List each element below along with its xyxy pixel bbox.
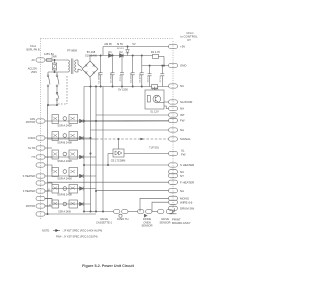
capacitor C4 bbox=[131, 56, 135, 87]
connector CN-A pin F-HEATER bbox=[36, 189, 52, 193]
svg-text:WIRE (H): WIRE (H) bbox=[180, 200, 192, 204]
wire bottom feed bbox=[47, 213, 96, 214]
svg-text:CE 17CD8M: CE 17CD8M bbox=[111, 159, 126, 163]
wire ground rail bbox=[84, 86, 169, 87]
wire switch join bbox=[47, 104, 57, 105]
resistor R1 bbox=[153, 54, 165, 65]
wire U1 to SL/ZCDR bbox=[164, 101, 169, 103]
connector CN-C outline (dash-dot vertical) bbox=[172, 41, 174, 212]
connector CN-A pin 6 bbox=[36, 163, 48, 167]
svg-text:MOTOR: MOTOR bbox=[26, 205, 35, 208]
svg-text:UT: UT bbox=[187, 38, 191, 42]
wire rail D rail bbox=[90, 55, 153, 56]
svg-text:C5 47/16: C5 47/16 bbox=[140, 73, 142, 83]
svg-text:INT: INT bbox=[180, 113, 185, 117]
svg-text:C7 0.1: C7 0.1 bbox=[160, 75, 162, 82]
wire bridge positive bbox=[89, 56, 91, 62]
connector CN-C pin FW bbox=[169, 118, 178, 122]
wire rail NA3 bbox=[96, 190, 169, 192]
wire rail F HEATER bbox=[48, 181, 169, 183]
wire rail NA2 bbox=[91, 129, 169, 131]
svg-text:F HEATER: F HEATER bbox=[23, 190, 35, 193]
wire +5V rail drop left bbox=[102, 47, 104, 56]
svg-text:GND: GND bbox=[180, 64, 186, 68]
svg-text:SSR-A 2408: SSR-A 2408 bbox=[57, 124, 72, 128]
connector CN-A pin HT bbox=[36, 155, 52, 159]
connector CN-C end bracket bbox=[170, 212, 177, 214]
opto-triac row 3 SSR-C bbox=[45, 148, 96, 159]
wire GND pin feed bbox=[142, 65, 169, 66]
svg-text:: JF K0T SPEC (FGC-14XX-H) (: : JF K0T SPEC (FGC-14XX-H) (P4) bbox=[62, 229, 102, 233]
connector CN-C pin NC1 bbox=[169, 84, 178, 88]
connector CN-C pin GND bbox=[169, 63, 178, 67]
connector CN-C pin NA1 bbox=[169, 106, 178, 110]
transistor box U1 bbox=[145, 87, 164, 110]
svg-text:SSR-B 2408: SSR-B 2408 bbox=[57, 193, 72, 197]
svg-text:SL TR: SL TR bbox=[28, 147, 35, 150]
connector CN-C pin NA3 bbox=[169, 189, 178, 193]
svg-text:Figure 5-2. Power Unit Circuit: Figure 5-2. Power Unit Circuit bbox=[82, 264, 134, 268]
svg-text:5V: 5V bbox=[132, 42, 135, 46]
svg-text:SSR-A 2408: SSR-A 2408 bbox=[57, 159, 72, 163]
connector pin pair door sensor bbox=[138, 210, 153, 218]
opto-triac row 6 SSR-F bbox=[45, 199, 91, 209]
wire vertical bus D bbox=[102, 87, 104, 212]
svg-text:C6 0.1: C6 0.1 bbox=[148, 75, 150, 82]
svg-text:D2: D2 bbox=[119, 50, 123, 54]
connector CN-A pin COM1 bbox=[36, 136, 52, 140]
switch SW2 bbox=[56, 72, 59, 94]
svg-text:SI 5V: SI 5V bbox=[117, 42, 124, 46]
svg-text:NA: NA bbox=[180, 128, 184, 132]
capacitor C5 bbox=[140, 56, 144, 87]
connector CN-C pin SL-FW bbox=[169, 151, 178, 155]
wire rail WIRE-H bbox=[152, 202, 169, 211]
connector CN-A pin 10 bbox=[36, 196, 52, 200]
svg-text:250V: 250V bbox=[31, 71, 37, 74]
svg-text:BSPL-PH B: BSPL-PH B bbox=[26, 48, 39, 51]
svg-text:F HEATER: F HEATER bbox=[180, 180, 194, 184]
capacitor C2 bbox=[111, 57, 115, 86]
svg-text:C4 100/16: C4 100/16 bbox=[131, 72, 133, 83]
connector CN-C pin +5V bbox=[169, 44, 178, 48]
fuse F1 bbox=[47, 59, 53, 62]
svg-text:FW: FW bbox=[181, 152, 186, 156]
connector CN-C pin SL-ZCDR bbox=[169, 100, 178, 104]
svg-text:SIGNAL: SIGNAL bbox=[180, 137, 191, 141]
svg-text:AM 05: AM 05 bbox=[104, 42, 112, 46]
svg-text:SSR-A 2408: SSR-A 2408 bbox=[57, 177, 72, 181]
connector CN-C pin NT bbox=[169, 174, 178, 178]
opto-triac row 2 SSR-B bbox=[52, 132, 91, 141]
switch interlock link (dashed) bbox=[58, 76, 67, 104]
svg-text:OVEN TH.: OVEN TH. bbox=[117, 217, 129, 221]
wire AC line upper bbox=[48, 59, 67, 61]
wire chain to DRUM bend bbox=[173, 211, 175, 213]
connector CN-C pin DRUM bbox=[169, 206, 178, 210]
svg-text:CASSETTE-1: CASSETTE-1 bbox=[96, 220, 113, 224]
note arrow symbol bbox=[53, 229, 60, 231]
connector CN-C pin WIRE-H bbox=[169, 200, 178, 204]
svg-text:S HEATER: S HEATER bbox=[23, 175, 36, 178]
connector pin pair oven thermostat bbox=[114, 210, 129, 218]
svg-text:SL/ZCDR: SL/ZCDR bbox=[180, 100, 192, 104]
capacitor C6 bbox=[148, 66, 152, 87]
svg-text:SSR-A 2408: SSR-A 2408 bbox=[58, 211, 71, 214]
wire rail MONO bbox=[140, 198, 169, 211]
svg-text:C2 470/25: C2 470/25 bbox=[110, 72, 112, 83]
svg-text:SENSOR: SENSOR bbox=[142, 224, 153, 228]
opto-triac row 1 SSR-A bbox=[52, 115, 96, 124]
wire top dashed bus bbox=[41, 38, 175, 40]
svg-text:125V 8A: 125V 8A bbox=[44, 52, 54, 56]
svg-text:SI 5.1V: SI 5.1V bbox=[117, 48, 125, 50]
svg-text:TLP 591: TLP 591 bbox=[149, 146, 159, 150]
svg-text:D1: D1 bbox=[108, 50, 112, 54]
triac Q1 CE17 bbox=[107, 138, 168, 165]
connector CN-C pin MONO bbox=[169, 196, 178, 200]
connector CN-C pin S-HEATER bbox=[169, 163, 178, 167]
svg-text:NOTE:: NOTE: bbox=[42, 229, 50, 233]
svg-text:NT: NT bbox=[180, 174, 184, 178]
thermal cutout TC1 bbox=[56, 92, 59, 105]
opto-triac row 5 SSR-E bbox=[45, 183, 96, 193]
svg-text:SL 12V: SL 12V bbox=[150, 110, 159, 114]
wire bridge negative drop bbox=[89, 77, 92, 87]
svg-text:FW: FW bbox=[180, 119, 185, 123]
svg-text:FW4 : JY K0T SPEC (FGC-1GS3T4: FW4 : JY K0T SPEC (FGC-1GS3T4) bbox=[56, 234, 98, 238]
svg-text:+5V: +5V bbox=[180, 45, 185, 49]
svg-text:5V 1500: 5V 1500 bbox=[118, 87, 128, 91]
svg-text:C3 0.1: C3 0.1 bbox=[120, 74, 122, 81]
svg-text:NA: NA bbox=[180, 189, 184, 193]
connector CN-A pin FAN bbox=[36, 119, 52, 123]
connector CN-A pin 8 bbox=[36, 181, 48, 185]
zener ZD1 bbox=[126, 47, 130, 56]
transformer T1 bbox=[67, 59, 83, 75]
wire rail S HEATER bbox=[84, 164, 169, 166]
svg-text:NA: NA bbox=[180, 107, 184, 111]
connector CN-C pin INT bbox=[169, 113, 178, 117]
varistor ZNR1 bbox=[52, 59, 56, 72]
svg-text:MOTOR: MOTOR bbox=[26, 121, 35, 124]
connector CN-A pin SLTR bbox=[36, 146, 48, 150]
connector CN-C pin SIGNAL bbox=[169, 137, 178, 141]
connector CN-A pin AC1 bbox=[36, 58, 48, 62]
connector CN-A pin S-HEATER bbox=[36, 174, 52, 178]
svg-text:NC: NC bbox=[180, 84, 184, 88]
wire AC line lower bbox=[48, 71, 67, 73]
wire vertical bus A bbox=[83, 87, 84, 212]
svg-text:HT: HT bbox=[32, 156, 36, 159]
wire +5V rail bbox=[103, 46, 169, 47]
svg-text:SENSOR: SENSOR bbox=[160, 220, 171, 224]
opto-triac row 4 SSR-D bbox=[48, 165, 97, 178]
connector CN-C pin NC2 bbox=[169, 170, 178, 174]
wire rail FW bbox=[84, 120, 169, 122]
wire vertical bus C bbox=[95, 86, 96, 212]
wire rail DRUM bbox=[174, 208, 176, 211]
svg-text:C1 1000/35: C1 1000/35 bbox=[99, 72, 101, 84]
diode D2 bbox=[120, 54, 124, 58]
connector CN-C pin F-HEATER bbox=[169, 180, 178, 184]
svg-text:BY-168: BY-168 bbox=[87, 50, 96, 54]
svg-text:DRUM SW: DRUM SW bbox=[180, 207, 194, 211]
svg-text:COM1: COM1 bbox=[28, 137, 36, 140]
diode D1 bbox=[109, 54, 113, 58]
connector CN-A pin 12 bbox=[36, 212, 48, 216]
switch SW1 bbox=[47, 72, 50, 105]
wire vertical bus B bbox=[90, 87, 91, 212]
capacitor C7 bbox=[160, 65, 164, 87]
capacitor C1 bbox=[99, 56, 103, 87]
connector CN-A outline (dash-dot vertical) bbox=[40, 39, 42, 220]
wire U1 to NA bbox=[164, 106, 169, 109]
bridge rectifier BR1 bbox=[82, 61, 98, 77]
connector pin pair valve sensor bbox=[158, 210, 173, 214]
wire left feed bus bbox=[47, 105, 49, 214]
wire rail SIGNAL bbox=[48, 138, 169, 140]
svg-text:R1 4.7K: R1 4.7K bbox=[151, 50, 161, 54]
resistor R2 bbox=[152, 85, 158, 89]
capacitor C3 bbox=[120, 56, 124, 87]
svg-text:PT-0809: PT-0809 bbox=[67, 49, 77, 53]
svg-text:AC: AC bbox=[32, 59, 36, 62]
svg-text:S HEATER: S HEATER bbox=[180, 163, 194, 167]
connector CN-C pin NA2 bbox=[169, 128, 178, 132]
connector CN-A pin MOTOR bbox=[36, 204, 52, 208]
wire rail INT bbox=[96, 114, 169, 116]
wire bottom chain bbox=[83, 211, 157, 212]
svg-text:SSR-B 2408: SSR-B 2408 bbox=[57, 141, 72, 145]
svg-text:BOARD ASSY: BOARD ASSY bbox=[172, 221, 191, 225]
svg-text:SI 12K: SI 12K bbox=[152, 89, 159, 91]
